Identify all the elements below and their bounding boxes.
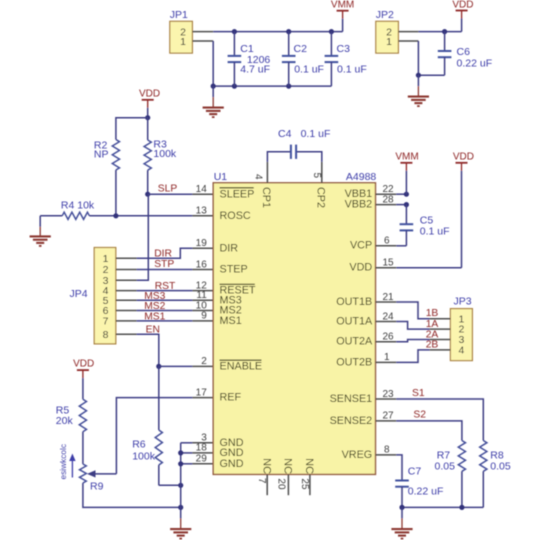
svg-text:esiwkcolc: esiwkcolc	[58, 444, 68, 480]
svg-text:STEP: STEP	[220, 264, 248, 276]
svg-text:VDD: VDD	[349, 262, 372, 274]
wire VDD to R2	[116, 118, 148, 140]
junction	[459, 505, 464, 510]
net GND pin29	[181, 463, 193, 465]
JP2 pin 1 stub	[398, 40, 418, 42]
net GND vertical	[180, 443, 182, 508]
JP3 pin 1 stub	[430, 318, 451, 320]
R9 wiper arrow	[96, 473, 117, 475]
JP4 pin 3 stub	[116, 279, 137, 281]
svg-text:1B: 1B	[426, 308, 439, 319]
svg-text:29: 29	[196, 454, 208, 465]
svg-text:14: 14	[196, 184, 208, 195]
svg-text:OUT2B: OUT2B	[336, 356, 372, 368]
clockwise arrow	[71, 458, 73, 478]
ground	[39, 216, 41, 227]
svg-text:EN: EN	[146, 324, 160, 335]
pin 20 stub NC	[287, 474, 289, 495]
junction	[286, 29, 291, 34]
svg-text:4: 4	[252, 174, 263, 180]
junction	[232, 29, 237, 34]
net VDD pin15	[396, 267, 461, 269]
svg-text:13: 13	[196, 206, 208, 217]
net S2	[396, 421, 462, 441]
svg-text:5: 5	[311, 173, 322, 179]
svg-text:27: 27	[383, 411, 395, 422]
net RST	[137, 290, 193, 292]
pin 17 stub	[192, 397, 213, 399]
resistor R8	[480, 441, 487, 472]
junction	[178, 450, 183, 455]
wire ground rail	[213, 85, 331, 87]
pin 11 stub	[192, 299, 213, 301]
svg-text:VDD: VDD	[139, 89, 160, 100]
IC U1 A4988 body	[213, 183, 375, 475]
pin 24 stub	[376, 321, 397, 323]
JP4 pin 5 stub	[116, 299, 137, 301]
pin 18 stub	[192, 452, 213, 454]
svg-text:C6: C6	[457, 46, 471, 58]
net 2A	[396, 340, 429, 342]
svg-text:CP2: CP2	[314, 187, 326, 208]
svg-text:S2: S2	[413, 410, 426, 421]
resistor R5	[79, 399, 86, 432]
pin 5 stub CP2	[321, 162, 323, 183]
svg-text:0.22 uF: 0.22 uF	[408, 486, 444, 498]
capacitor C6	[444, 32, 446, 51]
svg-text:15: 15	[383, 258, 395, 269]
svg-text:ROSC: ROSC	[220, 210, 251, 222]
junction	[404, 202, 409, 207]
svg-text:DIR: DIR	[220, 242, 239, 254]
svg-text:CP1: CP1	[260, 187, 272, 208]
capacitor C7	[395, 480, 409, 482]
svg-text:2B: 2B	[426, 340, 439, 351]
pin 13 stub	[192, 215, 213, 217]
svg-text:0.1 uF: 0.1 uF	[294, 63, 324, 75]
net DIR	[137, 248, 193, 258]
svg-text:A4988: A4988	[346, 171, 377, 183]
junction	[178, 461, 183, 466]
pin 15 stub	[376, 267, 397, 269]
svg-text:OUT1A: OUT1A	[336, 315, 373, 327]
pin 8 stub	[376, 454, 397, 456]
junction	[442, 29, 447, 34]
capacitor C1	[233, 32, 235, 56]
net ENABLE wire	[159, 365, 193, 367]
pin 7 stub NC	[266, 474, 268, 495]
svg-text:0.1 uF: 0.1 uF	[337, 63, 367, 75]
junction	[211, 84, 216, 89]
junction	[145, 115, 150, 120]
svg-text:JP2: JP2	[376, 9, 394, 21]
svg-text:19: 19	[196, 238, 208, 249]
net GND pin3	[181, 442, 193, 444]
svg-text:VMM: VMM	[331, 0, 354, 11]
svg-text:VDD: VDD	[452, 0, 473, 11]
junction	[178, 505, 183, 510]
svg-text:4: 4	[458, 345, 464, 357]
connector JP1	[170, 21, 193, 53]
pin 22 stub	[376, 193, 397, 195]
ground	[401, 507, 403, 518]
svg-text:0.1 uF: 0.1 uF	[420, 226, 450, 238]
svg-text:C3: C3	[337, 43, 351, 55]
svg-text:16: 16	[196, 259, 208, 270]
pin 10 stub	[192, 310, 213, 312]
svg-text:20k: 20k	[56, 415, 74, 427]
svg-text:VREG: VREG	[342, 449, 373, 461]
net ROSC wire R4	[40, 215, 62, 217]
svg-text:MS1: MS1	[220, 315, 242, 327]
net VREG	[396, 455, 402, 481]
svg-text:MS1: MS1	[144, 312, 165, 323]
wire R9 bottom	[83, 483, 181, 507]
wire R3 to SLP	[147, 170, 149, 194]
capacitor C5	[405, 205, 407, 225]
net STP	[137, 269, 193, 271]
JP3 pin 4 stub	[430, 349, 451, 351]
JP4 pin 8 stub	[116, 333, 137, 335]
svg-text:100k: 100k	[132, 451, 156, 463]
resistor R6	[158, 366, 160, 430]
junction	[399, 505, 404, 510]
JP4 pin 2 stub	[116, 269, 137, 271]
JP2 pin 2 stub	[398, 31, 418, 33]
net REF	[116, 398, 192, 474]
svg-text:20: 20	[275, 478, 286, 490]
net GND pin18	[181, 452, 193, 454]
wire JP1 pin1 to ground rail	[212, 41, 214, 86]
svg-text:0.05: 0.05	[490, 460, 511, 472]
resistor R4	[62, 212, 89, 219]
net 1B	[396, 302, 429, 319]
connector JP2	[376, 21, 399, 53]
svg-text:25: 25	[299, 478, 310, 490]
svg-text:9: 9	[201, 311, 207, 322]
capacitor C3	[330, 32, 332, 56]
net sense ground rail	[402, 506, 483, 508]
svg-text:OUT2A: OUT2A	[336, 336, 373, 348]
svg-text:8: 8	[103, 329, 109, 341]
svg-text:R4 10k: R4 10k	[61, 200, 95, 212]
svg-text:C2: C2	[294, 43, 308, 55]
JP1 pin 2 stub	[192, 31, 213, 33]
svg-text:VCP: VCP	[350, 240, 372, 252]
junction	[404, 192, 409, 197]
net EN	[137, 334, 159, 366]
potentiometer R9	[80, 464, 87, 483]
svg-text:18: 18	[196, 443, 208, 454]
svg-text:1: 1	[386, 36, 392, 48]
svg-text:28: 28	[383, 194, 395, 205]
JP4 pin 1 stub	[116, 257, 137, 259]
svg-text:SLEEP: SLEEP	[220, 188, 255, 200]
JP4 pin 4 stub	[116, 290, 137, 292]
svg-text:0.1 uF: 0.1 uF	[301, 128, 331, 140]
svg-text:24: 24	[383, 311, 395, 322]
svg-text:VMM: VMM	[395, 151, 418, 162]
pin 28 stub	[376, 204, 397, 206]
svg-text:21: 21	[383, 292, 395, 303]
pin 12 stub	[192, 290, 213, 292]
pin 26 stub	[376, 341, 397, 343]
svg-text:1: 1	[103, 253, 109, 265]
svg-text:6: 6	[384, 236, 390, 247]
ground	[180, 507, 182, 518]
svg-text:SENSE1: SENSE1	[330, 393, 373, 405]
net S1	[396, 399, 483, 441]
svg-text:NC: NC	[303, 458, 315, 474]
JP4 pin 7 stub	[116, 320, 137, 322]
junction	[286, 84, 291, 89]
connector JP3	[450, 309, 472, 361]
JP3 pin 2 stub	[430, 328, 451, 330]
junction	[113, 213, 118, 218]
wire VMM rail top	[213, 31, 342, 33]
svg-text:1: 1	[384, 352, 390, 363]
capacitor C4	[267, 152, 291, 162]
pin 1 stub	[376, 361, 397, 363]
pin 16 stub	[192, 269, 213, 271]
wire R2 bottom	[115, 170, 117, 216]
net 1A	[396, 322, 429, 330]
svg-text:ENABLE: ENABLE	[220, 361, 263, 373]
svg-text:23: 23	[383, 389, 395, 400]
pin 23 stub	[376, 398, 397, 400]
svg-text:C4: C4	[278, 128, 292, 140]
svg-text:MS3: MS3	[144, 291, 165, 302]
svg-text:SLP: SLP	[158, 184, 178, 195]
svg-text:7: 7	[103, 316, 109, 328]
JP1 pin 1 stub	[192, 40, 213, 42]
svg-text:JP4: JP4	[70, 288, 88, 300]
wire JP2 pin1 down to ground	[418, 41, 444, 75]
pin 6 stub	[376, 245, 397, 247]
svg-text:22: 22	[383, 184, 395, 195]
ground	[212, 86, 214, 97]
pin 4 stub CP1	[266, 162, 268, 183]
net VBB2	[396, 204, 406, 206]
pin 19 stub	[192, 247, 213, 249]
net 2B	[396, 350, 429, 363]
wire R4 to ROSC	[89, 215, 192, 217]
pin 21 stub	[376, 301, 397, 303]
connector JP4	[94, 248, 116, 344]
svg-text:STP: STP	[154, 259, 174, 270]
svg-text:8: 8	[384, 445, 390, 456]
svg-text:VBB2: VBB2	[345, 199, 373, 211]
net MS3	[137, 299, 193, 301]
svg-text:C5: C5	[420, 214, 434, 226]
svg-text:OUT1B: OUT1B	[336, 296, 372, 308]
resistor R2	[112, 140, 119, 171]
pin 9 stub	[192, 320, 213, 322]
wire JP2 pin2 to VDD	[418, 31, 461, 33]
svg-text:1: 1	[180, 36, 186, 48]
resistor R3	[147, 118, 149, 140]
ground	[417, 75, 419, 86]
pin 25 stub NC	[309, 474, 311, 495]
junction ENABLE node	[156, 364, 161, 369]
pin 2 stub	[192, 365, 213, 367]
svg-text:U1: U1	[214, 171, 228, 183]
resistor R7	[458, 441, 465, 472]
svg-text:JP3: JP3	[454, 295, 472, 307]
svg-text:NP: NP	[94, 149, 109, 161]
svg-text:JP1: JP1	[170, 9, 188, 21]
net SLP wire	[148, 193, 193, 195]
pin 14 stub	[192, 193, 213, 195]
JP4 pin 6 stub	[116, 310, 137, 312]
net MS1	[137, 320, 193, 322]
net VBB1 to VMM	[396, 193, 406, 195]
junction SLP node	[145, 192, 150, 197]
svg-text:C7: C7	[408, 465, 422, 477]
svg-text:S1: S1	[412, 388, 425, 399]
svg-text:GND: GND	[220, 458, 244, 470]
pin 29 stub	[192, 463, 213, 465]
svg-text:2: 2	[201, 356, 207, 367]
JP3 pin 3 stub	[430, 339, 451, 341]
svg-text:SENSE2: SENSE2	[330, 415, 373, 427]
net MS2	[137, 310, 193, 312]
svg-text:R6: R6	[132, 439, 146, 451]
svg-text:VDD: VDD	[73, 359, 94, 370]
svg-text:R9: R9	[90, 481, 104, 493]
pin 3 stub	[192, 442, 213, 444]
net VCP	[396, 245, 406, 247]
svg-text:17: 17	[196, 387, 208, 398]
svg-text:4.7 uF: 4.7 uF	[240, 63, 270, 75]
junction	[329, 29, 334, 34]
svg-text:NC: NC	[282, 458, 294, 474]
svg-text:REF: REF	[220, 392, 242, 404]
pin 27 stub	[376, 420, 397, 422]
wire R6 to GND net	[159, 484, 181, 486]
svg-text:100k: 100k	[153, 148, 177, 160]
svg-text:NC: NC	[260, 458, 272, 474]
svg-text:7: 7	[256, 478, 267, 484]
wire R5 to R9	[82, 432, 84, 464]
net SLP to JP4 pin3	[137, 194, 149, 280]
junction	[416, 73, 421, 78]
svg-text:0.22 uF: 0.22 uF	[457, 57, 493, 69]
svg-text:0.05: 0.05	[435, 460, 456, 472]
svg-text:VDD: VDD	[453, 151, 474, 162]
svg-text:26: 26	[383, 332, 395, 343]
capacitor C2	[288, 32, 290, 56]
junction	[178, 483, 183, 488]
junction	[232, 84, 237, 89]
svg-text:10: 10	[196, 300, 208, 311]
